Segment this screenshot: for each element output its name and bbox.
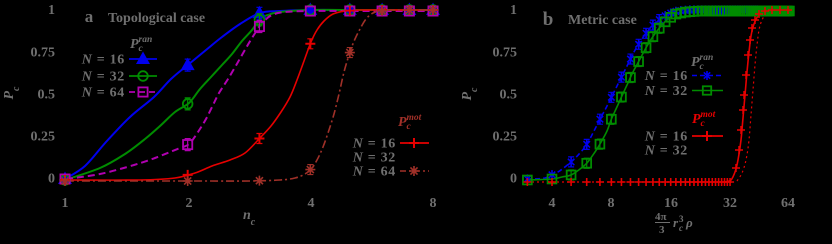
svg-text:64: 64	[781, 196, 795, 211]
svg-text:Metric case: Metric case	[568, 13, 637, 28]
svg-text:a: a	[85, 7, 94, 26]
svg-text:0.5: 0.5	[500, 88, 518, 103]
svg-text:0.75: 0.75	[493, 46, 518, 61]
svg-text:Topological case: Topological case	[108, 11, 205, 26]
svg-text:8: 8	[430, 196, 437, 211]
svg-text:16: 16	[664, 196, 678, 211]
svg-text:0.25: 0.25	[31, 130, 56, 145]
svg-text:0: 0	[510, 172, 517, 187]
svg-text:N = 32: N = 32	[644, 144, 688, 159]
svg-text:N = 16: N = 16	[644, 130, 688, 145]
svg-text:0: 0	[48, 172, 55, 187]
svg-text:3: 3	[659, 224, 665, 236]
svg-text:1: 1	[510, 3, 517, 18]
svg-text:N = 16: N = 16	[352, 137, 396, 152]
svg-text:N = 32: N = 32	[81, 70, 125, 85]
svg-text:32: 32	[723, 196, 737, 211]
svg-text:N = 64: N = 64	[352, 165, 396, 180]
svg-text:b: b	[543, 9, 554, 30]
svg-text:1: 1	[62, 196, 69, 211]
svg-text:1: 1	[48, 3, 55, 18]
svg-text:4π: 4π	[655, 211, 667, 223]
svg-text:N = 32: N = 32	[352, 151, 396, 166]
svg-text:8: 8	[608, 196, 615, 211]
svg-text:N = 16: N = 16	[644, 69, 688, 84]
svg-text:c: c	[679, 223, 683, 233]
svg-text:N = 32: N = 32	[644, 84, 688, 99]
svg-text:N = 64: N = 64	[81, 86, 125, 101]
svg-text:2: 2	[186, 196, 193, 211]
svg-text:0.5: 0.5	[38, 88, 56, 103]
svg-text:0.75: 0.75	[31, 46, 56, 61]
svg-text:ρ: ρ	[685, 215, 693, 230]
svg-text:N = 16: N = 16	[81, 53, 125, 68]
svg-text:4: 4	[549, 196, 556, 211]
svg-text:4: 4	[308, 196, 315, 211]
svg-text:0.25: 0.25	[493, 130, 518, 145]
